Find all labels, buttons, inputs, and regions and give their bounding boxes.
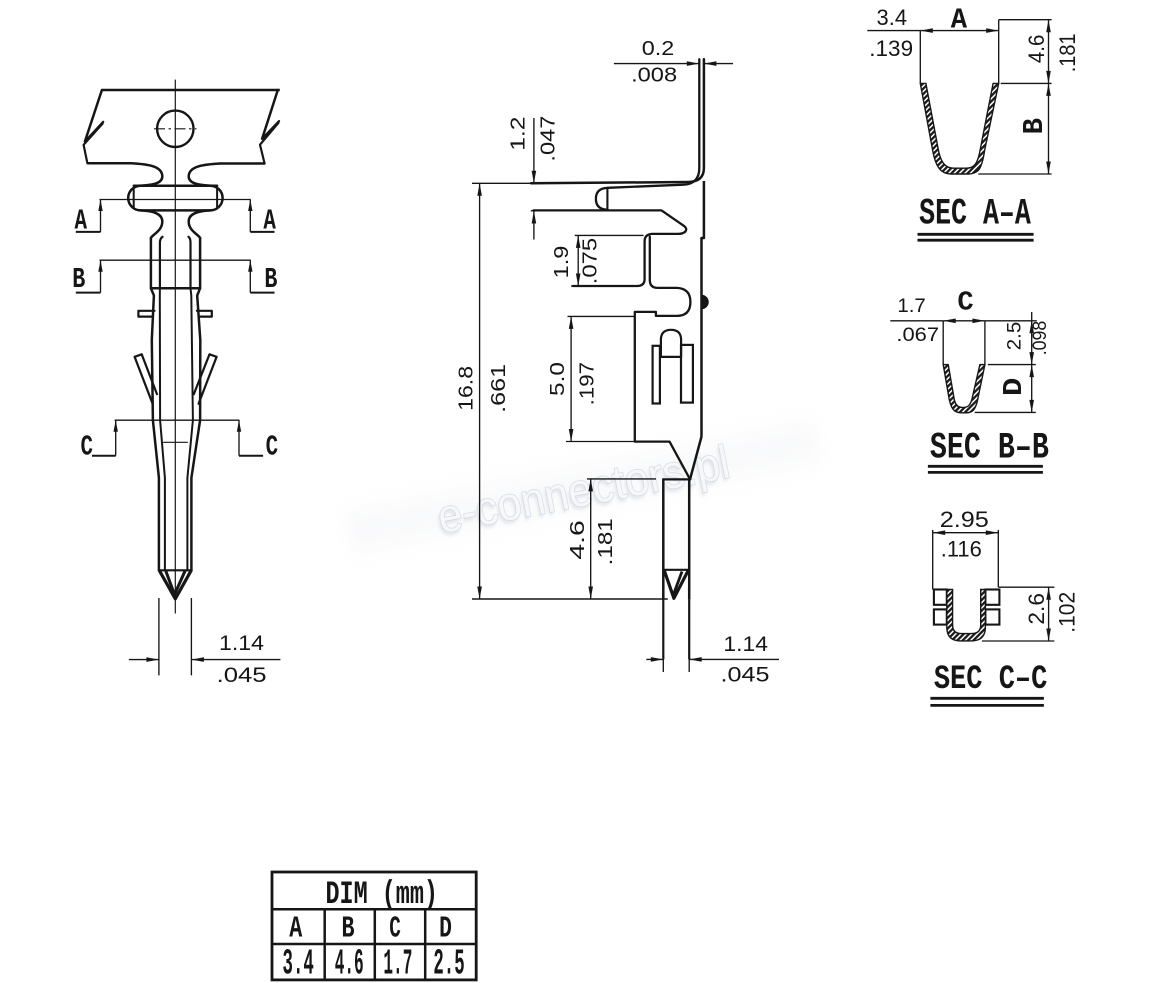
svg-text:3.4: 3.4 bbox=[283, 944, 314, 983]
svg-text:DIM (mm): DIM (mm) bbox=[325, 876, 438, 913]
svg-text:B: B bbox=[264, 263, 277, 296]
svg-text:.067: .067 bbox=[896, 325, 939, 346]
svg-text:A: A bbox=[289, 912, 302, 947]
svg-text:.047: .047 bbox=[537, 116, 559, 162]
svg-text:4.6: 4.6 bbox=[1024, 35, 1049, 64]
svg-text:0.2: 0.2 bbox=[642, 38, 675, 60]
svg-text:D: D bbox=[439, 912, 452, 947]
svg-text:SEC C–C: SEC C–C bbox=[934, 661, 1048, 699]
svg-text:SEC A–A: SEC A–A bbox=[919, 194, 1031, 236]
svg-text:2.5: 2.5 bbox=[433, 944, 464, 983]
svg-text:.181: .181 bbox=[1055, 34, 1080, 73]
svg-text:SEC B–B: SEC B–B bbox=[930, 428, 1049, 470]
svg-text:4.6: 4.6 bbox=[567, 520, 589, 560]
svg-text:.102: .102 bbox=[1055, 592, 1080, 633]
svg-text:16.8: 16.8 bbox=[454, 366, 477, 411]
svg-text:C: C bbox=[957, 289, 973, 319]
svg-text:.045: .045 bbox=[217, 664, 267, 687]
svg-text:A: A bbox=[75, 204, 88, 237]
svg-text:.139: .139 bbox=[869, 36, 913, 61]
svg-text:.075: .075 bbox=[579, 238, 601, 284]
svg-text:A: A bbox=[263, 204, 276, 237]
svg-text:5.0: 5.0 bbox=[547, 362, 569, 396]
svg-text:.008: .008 bbox=[631, 64, 677, 86]
svg-text:.661: .661 bbox=[487, 364, 510, 413]
svg-text:1.7: 1.7 bbox=[897, 296, 926, 317]
svg-text:B: B bbox=[342, 912, 355, 947]
svg-text:1.9: 1.9 bbox=[551, 246, 573, 279]
svg-text:1.14: 1.14 bbox=[219, 632, 264, 655]
svg-text:2.95: 2.95 bbox=[940, 507, 989, 532]
svg-text:A: A bbox=[951, 4, 968, 37]
svg-text:2.6: 2.6 bbox=[1024, 593, 1049, 625]
svg-text:.045: .045 bbox=[721, 663, 770, 686]
svg-text:1.7: 1.7 bbox=[383, 944, 412, 983]
svg-text:.098: .098 bbox=[1030, 321, 1051, 356]
svg-text:C: C bbox=[266, 431, 279, 464]
svg-text:B: B bbox=[72, 263, 85, 296]
svg-text:3.4: 3.4 bbox=[877, 5, 908, 30]
svg-text:B: B bbox=[1018, 118, 1051, 134]
svg-text:1.14: 1.14 bbox=[723, 633, 768, 656]
svg-text:C: C bbox=[389, 912, 401, 947]
svg-text:.116: .116 bbox=[941, 536, 982, 561]
svg-text:.181: .181 bbox=[595, 518, 617, 565]
svg-text:1.2: 1.2 bbox=[508, 117, 530, 151]
svg-text:D: D bbox=[1000, 378, 1030, 396]
svg-text:2.5: 2.5 bbox=[1005, 322, 1026, 351]
svg-text:C: C bbox=[81, 431, 94, 464]
svg-text:.197: .197 bbox=[576, 362, 598, 405]
svg-text:4.6: 4.6 bbox=[335, 944, 364, 983]
